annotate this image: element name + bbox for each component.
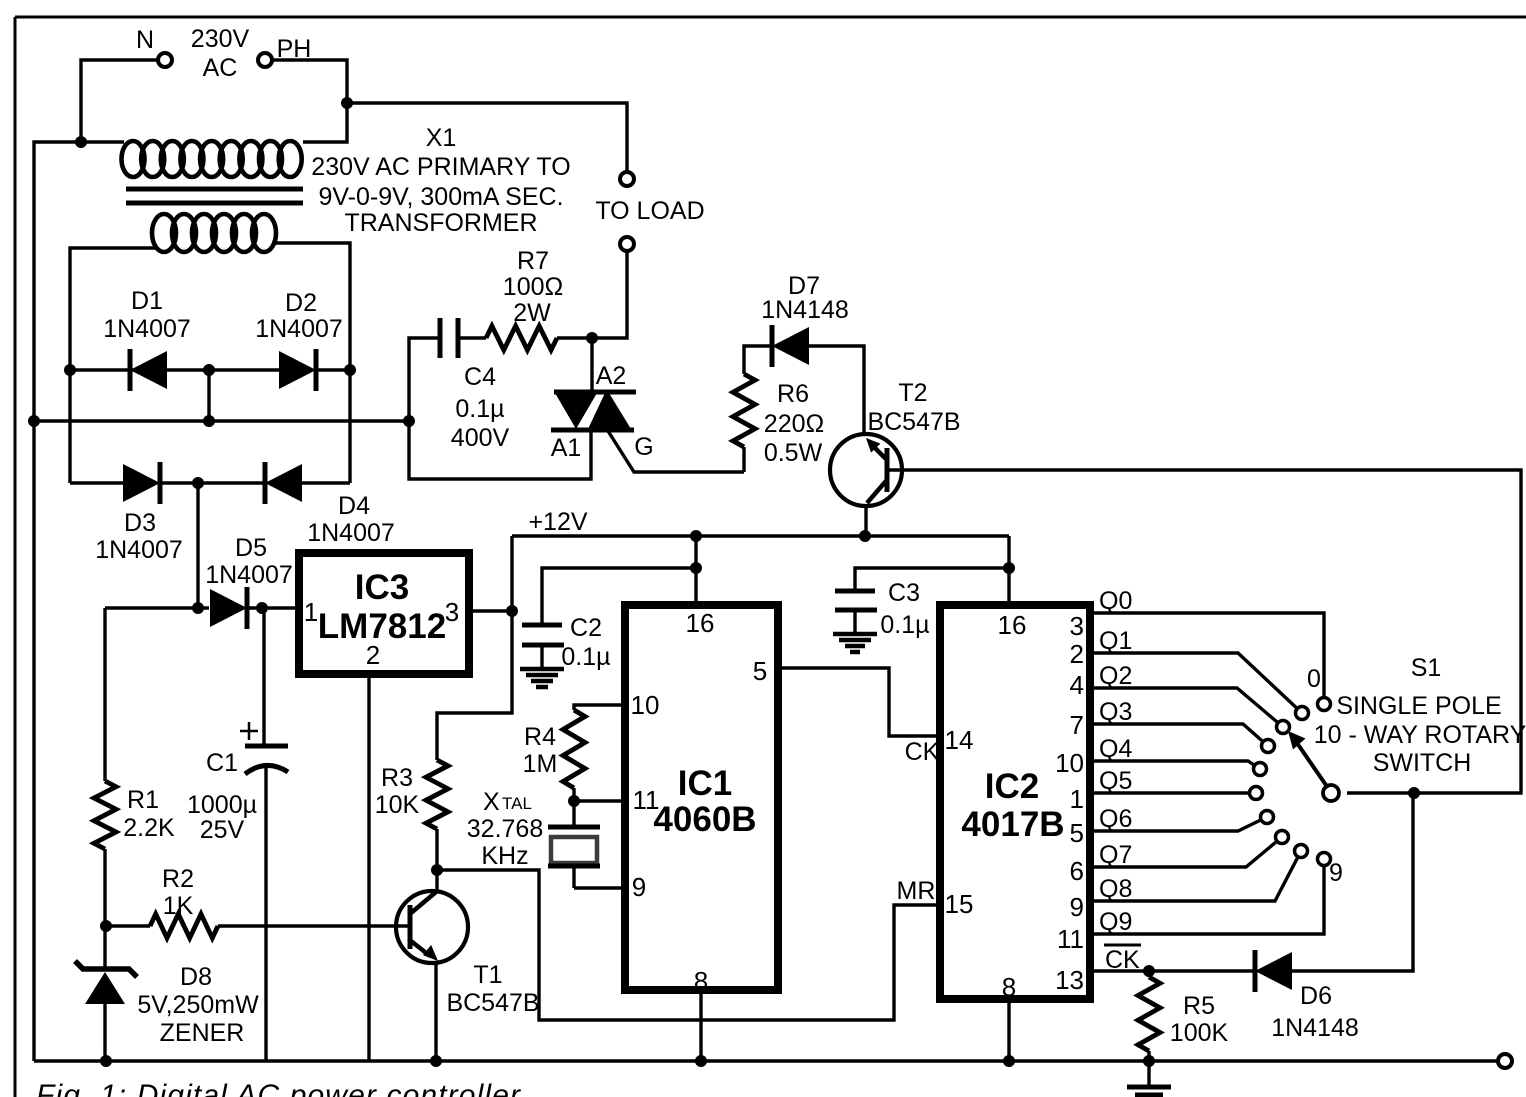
terminal load lower [620,237,634,251]
wire IC1 pin8 stub [699,994,702,1061]
svg-text:Fig. 1: Digital AC power contr: Fig. 1: Digital AC power controller [36,1079,521,1097]
svg-text:4: 4 [1070,670,1084,700]
wire N terminal to left rail [81,60,158,142]
svg-text:10K: 10K [375,791,420,819]
svg-text:TO LOAD: TO LOAD [595,197,704,225]
svg-text:0: 0 [1307,665,1321,693]
svg-text:Q4: Q4 [1099,735,1132,763]
svg-text:13: 13 [1055,965,1084,995]
svg-text:1: 1 [1070,784,1084,814]
svg-text:D5: D5 [235,534,267,562]
svg-text:1N4007: 1N4007 [255,315,343,343]
svg-text:R3: R3 [381,764,413,792]
svg-text:1M: 1M [523,750,558,778]
wire mid rail to C4 [409,338,441,421]
node junction T1-rail [430,1055,442,1067]
ground C2 [520,667,564,672]
node junction PH-load [341,97,353,109]
capacitor C1 plus [240,730,258,733]
capacitor C1 [245,744,288,749]
wire 12Vtap to R3 [437,611,512,760]
wire Q1 to contact 1 [1094,653,1297,708]
wire IC2 pin16 stub [1007,536,1010,601]
diode D7 [772,327,809,365]
node junction IC2pin8-rail [1003,1055,1015,1067]
wire Q5 to contact 5 [1094,791,1249,794]
switch S1 pole [1323,785,1339,801]
svg-text:2W: 2W [513,299,551,327]
node junction mid-center [203,415,215,427]
resistor R2 [150,914,218,938]
wire Q6 to contact 6 [1094,820,1261,831]
wire D8 to rail [103,1004,106,1061]
wire Q7 to contact 7 [1094,842,1277,868]
node junction 12V-IC1 [690,530,702,542]
wire Q3 to contact 3 [1094,724,1263,741]
ic U IC1 4060B box [625,605,778,990]
svg-text:1: 1 [304,597,318,627]
wire Q9 to contact 9 [1094,866,1324,934]
wire XTAL to IC1 pin9 [574,886,621,889]
svg-text:9V-0-9V, 300mA SEC.: 9V-0-9V, 300mA SEC. [318,183,563,211]
wire D5 row to R1 [103,608,106,781]
svg-text:4060B: 4060B [653,800,756,839]
wire IC1 pin11 [574,799,621,802]
svg-text:SWITCH: SWITCH [1373,749,1472,777]
svg-text:32.768: 32.768 [467,815,543,843]
svg-text:ZENER: ZENER [160,1019,245,1047]
svg-text:C4: C4 [464,363,496,391]
terminal bottom right [1498,1054,1512,1068]
svg-text:D8: D8 [180,963,212,991]
node junction N-rail [75,136,87,148]
wire bottom common rail [34,1059,1498,1062]
svg-text:10: 10 [631,690,660,720]
wire Q8 to contact 8 [1094,857,1298,901]
wire PH to transformer right [272,60,347,142]
switch S1 contact 5 [1250,787,1263,800]
svg-text:11: 11 [1057,924,1084,954]
switch S1 lever [1297,743,1328,788]
triac A1 bar [551,428,634,433]
svg-text:N: N [136,26,154,54]
resistor R4 [563,710,585,788]
wire D1 row [70,368,209,371]
node junction C3-IC2pin16 [1003,562,1015,574]
transistor T1 [396,891,468,963]
diode D2 [279,351,316,389]
terminal N [158,53,172,67]
ic U IC3 LM7812 box [299,553,469,674]
wire left rail vertical [34,142,81,1061]
wire IC1 pin10 to R4 [574,705,621,710]
node junction T1 collector [431,864,443,876]
svg-text:0.1µ: 0.1µ [455,395,504,423]
transformer X1 secondary winding [152,214,276,252]
svg-text:1K: 1K [163,892,194,920]
wire IC3 pin2 ground [367,678,370,1061]
wire Q2 to contact 2 [1094,688,1278,723]
svg-text:Q2: Q2 [1099,662,1132,690]
wire PH junction to load terminal [347,103,627,172]
svg-text:D6: D6 [1300,982,1332,1010]
node junction D5 anode [192,602,204,614]
svg-text:S1: S1 [1411,654,1442,682]
svg-text:3: 3 [1070,611,1084,641]
wire C4 to R7 [457,336,486,339]
svg-text:16: 16 [998,610,1027,640]
crystal XTAL [572,801,575,827]
svg-text:IC1: IC1 [678,764,732,803]
svg-text:BC547B: BC547B [867,408,960,436]
diode D5 [210,589,247,627]
transistor T2 [830,434,902,506]
svg-text:R2: R2 [162,865,194,893]
svg-text:11: 11 [633,785,660,815]
svg-text:0.1µ: 0.1µ [880,611,929,639]
svg-text:220Ω: 220Ω [764,410,824,438]
wire node to A2 [590,338,593,392]
svg-text:Q8: Q8 [1099,875,1132,903]
wire left rail to primary [81,140,124,143]
wire IC1 pin5 to IC2 pin14 [782,668,936,736]
svg-text:D3: D3 [124,509,156,537]
svg-text:1N4007: 1N4007 [307,519,395,547]
wire R6 top to D7 [742,447,745,472]
node junction R5-rail [1143,1055,1155,1067]
svg-text:1N4007: 1N4007 [103,315,191,343]
svg-text:D1: D1 [131,287,163,315]
node junction pole-D6 [1408,787,1420,799]
svg-text:6: 6 [1070,856,1084,886]
svg-text:SINGLE POLE: SINGLE POLE [1336,692,1501,720]
wire IC3 pin3 out [473,609,512,612]
svg-text:5: 5 [1070,818,1084,848]
wire secondary right to bridge [272,243,350,483]
svg-text:1N4007: 1N4007 [95,536,183,564]
svg-text:A2: A2 [596,362,627,390]
resistor R3 [426,760,448,829]
switch S1 contact 6 [1261,811,1274,824]
wire R2 node to D8 [103,926,106,969]
diode D4 [265,464,302,502]
wire T1 collector to IC2 MR [437,870,936,1020]
node junction D5 cathode [256,602,268,614]
ground R5 [1147,1061,1150,1086]
wire IC1 pin16 stub [694,536,697,601]
svg-text:25V: 25V [200,816,245,844]
svg-text:2: 2 [366,640,380,670]
svg-text:Q7: Q7 [1099,841,1132,869]
svg-text:1000µ: 1000µ [187,791,257,819]
svg-text:10 - WAY ROTARY: 10 - WAY ROTARY [1314,721,1526,749]
wire D7 anode to T2 top [808,346,864,434]
wire bridge bottom to D5 row [196,483,199,608]
svg-text:R4: R4 [524,723,556,751]
wire D3 row [70,481,123,484]
ic U IC2 4017B box [940,605,1090,999]
node junction bridge bottom center [192,477,204,489]
wire C1 to rail [264,768,267,1061]
ground C3 [833,632,877,637]
svg-text:C1: C1 [206,749,238,777]
svg-text:9: 9 [632,872,646,902]
wire IC2 pin8 stub [1007,1003,1010,1061]
svg-text:0.1µ: 0.1µ [561,643,610,671]
svg-text:14: 14 [945,725,974,755]
svg-text:8: 8 [1002,972,1016,1002]
svg-text:1N4148: 1N4148 [1271,1014,1359,1042]
svg-text:C2: C2 [570,614,602,642]
switch S1 contact 1 [1296,707,1309,720]
svg-text:MR: MR [897,877,936,905]
node junction T2-12V [859,530,871,542]
resistor R7 [486,326,557,350]
svg-text:R5: R5 [1183,992,1215,1020]
svg-text:100Ω: 100Ω [503,273,563,301]
terminal PH [258,53,272,67]
wire T2 emitter to rail [864,506,867,536]
node junction R1-R2-D8 [100,920,112,932]
svg-text:9: 9 [1070,892,1084,922]
svg-text:4017B: 4017B [961,805,1064,844]
triac A2 bar [554,390,636,395]
wire Q0 to contact 0 [1094,613,1324,697]
switch S1 contact 9 [1318,853,1331,866]
svg-text:8: 8 [694,966,708,996]
svg-text:Q6: Q6 [1099,805,1132,833]
resistor R5 [1138,977,1160,1051]
wire R3 to T1 collector [435,829,438,870]
svg-text:9: 9 [1329,859,1343,887]
node junction C2-IC1pin16 [690,562,702,574]
wire gate [608,431,744,472]
svg-text:3: 3 [445,597,459,627]
wire D6 anode to pole junction [1292,793,1413,971]
svg-text:Q3: Q3 [1099,698,1132,726]
svg-text:KHz: KHz [481,842,528,870]
wire C3 branch [855,568,1009,591]
diode D1 [130,351,167,389]
wire R2 leads [106,924,150,927]
node junction mid-left [28,415,40,427]
wire bridge top center to mid rail [207,370,210,421]
svg-text:X: X [483,788,500,816]
terminal load upper [620,172,634,186]
svg-text:R6: R6 [777,380,809,408]
svg-text:15: 15 [945,889,974,919]
svg-text:0.5W: 0.5W [764,439,823,467]
node junction left rail D1 [64,364,76,376]
wire T1 emitter to rail [434,961,437,1061]
svg-text:C3: C3 [888,579,920,607]
page border frame [15,16,1526,19]
diode D3 [123,464,160,502]
transformer X1 core [126,187,303,192]
wire T2 base to switch pole [889,470,1521,793]
node junction bridge top center [203,364,215,376]
svg-text:1N4007: 1N4007 [205,561,293,589]
svg-text:10: 10 [1055,748,1084,778]
svg-text:100K: 100K [1170,1019,1229,1047]
svg-text:230V AC PRIMARY TO: 230V AC PRIMARY TO [311,153,570,181]
node junction R7-triac [586,332,598,344]
svg-text:Q9: Q9 [1099,908,1132,936]
switch S1 contact 8 [1295,845,1308,858]
svg-text:A1: A1 [551,434,582,462]
svg-text:D4: D4 [338,492,370,520]
node junction mid-C4 [403,415,415,427]
svg-text:5: 5 [753,656,767,686]
svg-text:D2: D2 [285,289,317,317]
wire triac A1 loop [409,421,591,479]
svg-text:5V,250mW: 5V,250mW [137,991,259,1019]
svg-text:R7: R7 [517,247,549,275]
svg-text:BC547B: BC547B [446,989,539,1017]
resistor R1 [94,781,116,849]
triac body [555,393,597,429]
wire IC2 pin13 to D6 [1094,969,1255,972]
switch S1 contact 2 [1277,721,1290,734]
diode D8 zener [82,966,130,972]
node junction IC1pin8-rail [695,1055,707,1067]
wire C2 branch [542,568,696,625]
switch S1 contact 3 [1262,740,1275,753]
wire D5 cathode to C1 [262,608,265,746]
wire R7 to node [557,336,592,339]
svg-text:230V: 230V [191,25,250,53]
node junction right rail D2 [344,364,356,376]
svg-text:2: 2 [1070,639,1084,669]
svg-text:T1: T1 [473,961,502,989]
svg-text:X1: X1 [426,124,457,152]
svg-text:TAL: TAL [502,794,532,813]
svg-text:Q1: Q1 [1099,627,1132,655]
wire R1 to R2 node [103,849,106,926]
svg-text:Q0: Q0 [1099,587,1132,615]
svg-text:AC: AC [203,54,238,82]
switch S1 contact 4 [1254,763,1267,776]
wire D5 row [105,606,209,609]
node junction +12V tap [506,605,518,617]
svg-text:G: G [634,433,653,461]
switch S1 contact 0 [1318,698,1331,711]
svg-text:IC2: IC2 [985,767,1039,806]
svg-text:7: 7 [1070,710,1084,740]
svg-text:T2: T2 [898,379,927,407]
wire load lower to R7 node [592,251,627,338]
capacitor C3 [835,589,875,594]
svg-text:400V: 400V [451,424,510,452]
svg-text:+12V: +12V [528,508,587,536]
resistor R6 [733,374,755,447]
wire Q4 to contact 4 [1094,761,1254,765]
svg-text:LM7812: LM7812 [318,607,446,646]
svg-text:2.2K: 2.2K [123,814,175,842]
wire +12V rail [512,534,1009,537]
node junction R5 top [1143,965,1155,977]
switch S1 contact 7 [1276,831,1289,844]
node junction R4-XTAL-pin11 [568,795,580,807]
svg-text:CK: CK [905,738,940,766]
capacitor C2 [522,623,562,628]
transformer X1 primary winding [122,141,302,177]
svg-text:Q5: Q5 [1099,767,1132,795]
svg-text:R1: R1 [127,786,159,814]
diode D6 [1255,952,1292,990]
svg-text:1N4148: 1N4148 [761,296,849,324]
wire secondary left to bridge [70,248,156,483]
node junction D8-rail [100,1055,112,1067]
wire middle rail [34,419,409,422]
svg-text:16: 16 [686,608,715,638]
capacitor C4 [438,318,443,358]
svg-text:TRANSFORMER: TRANSFORMER [344,209,537,237]
svg-text:IC3: IC3 [355,568,409,607]
wire R4 to pin11 node [572,788,575,801]
wire R5 leads [1147,971,1150,977]
